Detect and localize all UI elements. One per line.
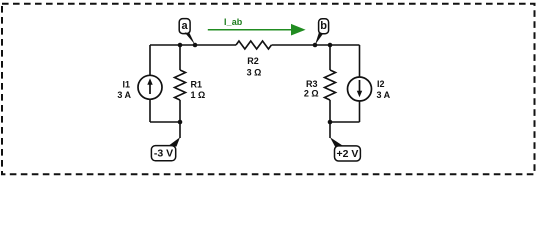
svg-text:R2: R2: [247, 56, 259, 66]
svg-text:3 A: 3 A: [377, 90, 391, 100]
wire bottom right horizontal: [330, 121, 360, 123]
wire R3 branch vertical: [329, 45, 331, 122]
wire R1 branch vertical: [179, 45, 181, 122]
svg-text:1 Ω: 1 Ω: [191, 90, 206, 100]
node b tag: [315, 19, 329, 45]
junction dot node a: [193, 43, 198, 48]
junction dot R1 bottom: [178, 120, 183, 125]
svg-text:b: b: [320, 20, 327, 32]
svg-text:a: a: [182, 20, 189, 32]
voltage tag -3 V: [151, 137, 180, 161]
wire stub to +2V tag: [329, 122, 331, 138]
current source I2: [348, 77, 372, 101]
svg-text:I1: I1: [122, 80, 130, 90]
wire top horizontal node a to node b: [150, 44, 360, 46]
voltage tag +2 V: [330, 137, 360, 161]
wire bottom left horizontal: [150, 121, 180, 123]
node a tag: [179, 19, 195, 45]
junction dot R1 top: [178, 43, 183, 48]
wire I1 branch vertical: [149, 45, 151, 122]
label I2 3 A: [377, 79, 391, 100]
svg-text:3 Ω: 3 Ω: [247, 67, 262, 77]
svg-text:I2: I2: [377, 79, 385, 89]
resistor R2: [236, 41, 271, 49]
svg-text:R1: R1: [191, 80, 203, 90]
label R2 3 ohm: [247, 56, 262, 78]
svg-text:R3: R3: [306, 79, 318, 89]
current arrow I_ab: [208, 24, 306, 36]
wire I2 branch vertical: [359, 45, 361, 122]
svg-text:3 A: 3 A: [117, 90, 131, 100]
svg-text:-3 V: -3 V: [154, 148, 173, 160]
label R1 1 ohm: [191, 80, 206, 100]
svg-text:I_ab: I_ab: [224, 17, 243, 27]
svg-text:2 Ω: 2 Ω: [304, 89, 319, 99]
junction dot R3 top: [328, 43, 333, 48]
resistor R1: [175, 70, 186, 100]
svg-text:+2 V: +2 V: [337, 148, 359, 160]
junction dot node b: [313, 43, 318, 48]
current source I1: [138, 75, 162, 99]
junction dot R3 bottom: [328, 120, 333, 125]
label R3 2 ohm: [304, 79, 319, 99]
wire stub to -3V tag: [179, 122, 181, 138]
label I1 3 A: [117, 80, 131, 100]
resistor R3: [325, 70, 336, 100]
